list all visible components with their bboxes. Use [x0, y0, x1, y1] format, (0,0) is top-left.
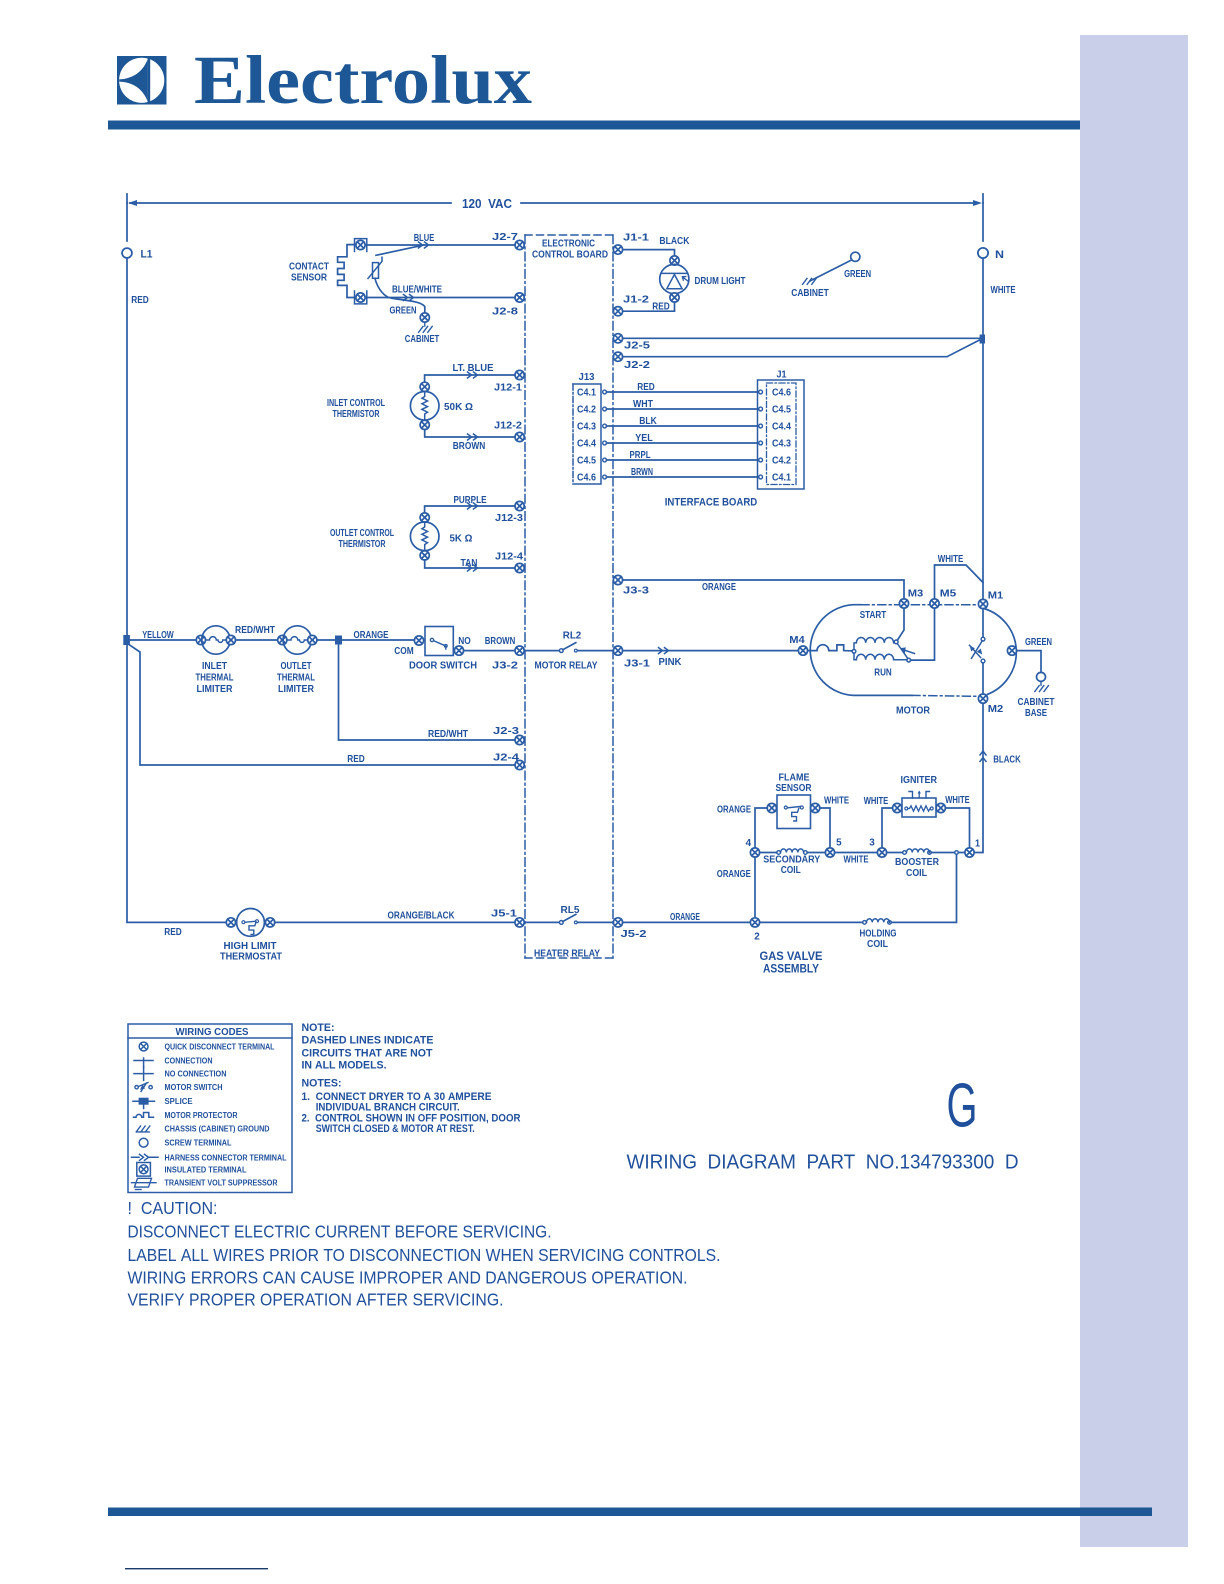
terminal J2-5: [613, 334, 622, 343]
svg-text:COIL: COIL: [867, 939, 888, 950]
svg-text:CONNECTION: CONNECTION: [165, 1057, 213, 1066]
svg-text:CHASSIS (CABINET) GROUND: CHASSIS (CABINET) GROUND: [165, 1125, 270, 1134]
svg-text:BLACK: BLACK: [659, 236, 690, 247]
svg-text:J5-1: J5-1: [491, 908, 518, 919]
svg-text:C4.1: C4.1: [772, 473, 791, 484]
contact sensor thermistor element: [368, 257, 382, 278]
ground cabinet (contact sensor): [419, 322, 433, 332]
svg-text:RL2: RL2: [563, 630, 582, 641]
svg-text:SPLICE: SPLICE: [165, 1097, 194, 1106]
wire YELLOW: [130, 639, 196, 641]
terminal J2-4: [515, 760, 524, 769]
wire ORANGE/BLACK: [275, 921, 515, 923]
footer rule: [108, 1508, 1152, 1517]
terminal J2-2: [613, 352, 622, 361]
svg-text:ORANGE: ORANGE: [702, 582, 736, 593]
svg-text:1: 1: [975, 838, 980, 849]
terminal contact sensor bottom: [356, 293, 365, 302]
svg-text:NOTES:: NOTES:: [302, 1078, 342, 1090]
svg-text:CABINET: CABINET: [791, 288, 829, 299]
svg-text:J2-7: J2-7: [492, 232, 519, 243]
svg-text:ORANGE: ORANGE: [670, 912, 700, 923]
wire M3 stem: [897, 608, 904, 640]
wire flame sensor left: [755, 808, 767, 848]
terminal motor GREEN: [1007, 646, 1016, 655]
terminal J12-2: [515, 432, 524, 441]
svg-text:START: START: [860, 610, 887, 621]
svg-text:WHITE: WHITE: [824, 795, 849, 806]
screw terminal cabinet base: [1037, 672, 1046, 681]
svg-text:PINK: PINK: [659, 657, 683, 668]
svg-text:TAN: TAN: [461, 558, 478, 569]
terminal J5-2: [613, 918, 622, 927]
svg-text:CONTROL BOARD: CONTROL BOARD: [532, 250, 608, 261]
svg-text:IGNITER: IGNITER: [901, 775, 938, 786]
terminal J12-4: [515, 563, 524, 572]
inlet thermal limiter: [202, 626, 230, 654]
legend symbol harness connector: [132, 1154, 159, 1160]
wire ORANGE J5-2: [623, 921, 751, 923]
terminal L1: [122, 248, 132, 258]
svg-text:HOLDING: HOLDING: [860, 928, 897, 939]
legend symbol no connection: [134, 1067, 153, 1081]
terminal flame sensor right: [811, 803, 820, 812]
svg-text:COIL: COIL: [906, 868, 927, 879]
wire GREEN cabinet base: [1017, 651, 1041, 673]
svg-text:CABINET: CABINET: [405, 334, 440, 345]
terminal J12-1: [515, 370, 524, 379]
svg-text:CIRCUITS THAT ARE NOT: CIRCUITS THAT ARE NOT: [302, 1048, 433, 1060]
svg-text:DASHED LINES INDICATE: DASHED LINES INDICATE: [302, 1035, 434, 1047]
svg-text:PRPL: PRPL: [630, 450, 651, 461]
wire RED/WHT limiters: [236, 639, 278, 641]
svg-text:SECONDARY: SECONDARY: [763, 854, 820, 865]
legend wiring codes box: [128, 1024, 292, 1193]
wire to splice 2: [317, 639, 335, 641]
svg-text:COIL: COIL: [781, 865, 801, 876]
terminal gas valve 5: [825, 848, 834, 857]
svg-text:SCREW TERMINAL: SCREW TERMINAL: [165, 1139, 232, 1148]
terminal gas valve 1: [965, 848, 974, 857]
terminal J1-2: [613, 307, 622, 316]
svg-text:INTERFACE BOARD: INTERFACE BOARD: [665, 496, 758, 508]
legend symbol motor switch: [135, 1083, 152, 1092]
svg-text:LABEL ALL WIRES PRIOR TO DISCO: LABEL ALL WIRES PRIOR TO DISCONNECTION W…: [128, 1245, 721, 1265]
svg-text:THERMOSTAT: THERMOSTAT: [220, 952, 282, 963]
svg-text:RED/WHT: RED/WHT: [235, 625, 275, 636]
wire J2-2: [623, 340, 980, 357]
terminal J3-3: [613, 575, 622, 584]
wire GREEN drop: [388, 298, 425, 313]
outlet thermal limiter: [283, 626, 311, 654]
svg-text:WIRING ERRORS CAN CAUSE IMPROP: WIRING ERRORS CAN CAUSE IMPROPER AND DAN…: [128, 1268, 688, 1288]
svg-text:C4.2: C4.2: [577, 405, 596, 416]
svg-text:GREEN: GREEN: [1025, 637, 1052, 648]
svg-text:50K Ω: 50K Ω: [444, 402, 473, 413]
svg-text:BROWN: BROWN: [485, 636, 516, 647]
pin C4.1 J13: [603, 390, 607, 394]
wire ORANGE 4 to 2: [754, 857, 756, 918]
svg-text:J2-3: J2-3: [493, 726, 520, 737]
motor switch start: [897, 644, 914, 659]
svg-text:ASSEMBLY: ASSEMBLY: [763, 964, 819, 976]
svg-text:COM: COM: [394, 646, 414, 657]
svg-text:J12-2: J12-2: [494, 420, 522, 431]
svg-text:DOOR SWITCH: DOOR SWITCH: [409, 660, 477, 671]
motor outline: [810, 605, 1016, 697]
svg-text:J2-8: J2-8: [492, 307, 519, 318]
svg-text:BRWN: BRWN: [631, 467, 653, 478]
svg-text:YEL: YEL: [635, 433, 653, 444]
svg-text:THERMAL: THERMAL: [196, 673, 234, 684]
svg-text:2: 2: [754, 932, 760, 943]
svg-text:L1: L1: [141, 249, 153, 261]
svg-text:FLAME: FLAME: [779, 772, 810, 783]
wire PINK: [623, 650, 799, 652]
wire igniter right: [945, 808, 969, 848]
terminal contact sensor top: [356, 240, 365, 249]
splice 2: [335, 636, 342, 645]
sidebar band: [1080, 35, 1188, 1547]
flame sensor: [777, 795, 811, 829]
svg-text:M2: M2: [988, 704, 1004, 715]
svg-text:! CAUTION:: ! CAUTION:: [128, 1198, 218, 1218]
pin C4.5 J13: [603, 458, 607, 462]
svg-text:RL5: RL5: [561, 905, 580, 916]
outlet control thermistor: [410, 522, 439, 551]
svg-text:GREEN: GREEN: [844, 269, 871, 280]
terminal GREEN ground: [420, 313, 429, 322]
screw terminal cabinet green: [851, 252, 860, 261]
svg-text:WHITE: WHITE: [844, 854, 869, 865]
svg-text:WHITE: WHITE: [864, 796, 889, 807]
wire N rail: [982, 203, 984, 599]
wire BRWN interface: [606, 476, 758, 478]
svg-text:120 VAC: 120 VAC: [462, 197, 512, 211]
svg-text:WHITE: WHITE: [945, 795, 970, 806]
svg-text:ORANGE: ORANGE: [717, 804, 751, 815]
wire ORANGE door switch: [342, 639, 414, 641]
terminal M3: [899, 599, 908, 608]
wire igniter left: [882, 808, 893, 848]
svg-text:HIGH LIMIT: HIGH LIMIT: [224, 941, 277, 952]
high limit thermostat: [237, 909, 265, 937]
legend symbol insulated terminal: [137, 1163, 151, 1177]
pin C4.3 J1: [759, 441, 763, 445]
wire BROWN door switch: [464, 650, 515, 652]
terminal J1-1: [613, 245, 622, 254]
wire RED high limit: [127, 921, 226, 923]
splice left rail: [123, 635, 130, 645]
header rule: [108, 121, 1080, 130]
terminal high limit left: [226, 918, 235, 927]
svg-text:MOTOR RELAY: MOTOR RELAY: [535, 660, 598, 671]
wire thermistor to BLUE: [376, 245, 424, 255]
svg-text:NOTE:: NOTE:: [302, 1022, 335, 1034]
terminal inlet thermistor bottom: [420, 420, 429, 429]
svg-text:WIRING CODES: WIRING CODES: [176, 1026, 249, 1038]
svg-text:OUTLET: OUTLET: [281, 661, 312, 672]
wire L1 rail: [126, 203, 128, 922]
svg-text:RED: RED: [347, 754, 365, 765]
svg-text:LT. BLUE: LT. BLUE: [453, 363, 494, 374]
svg-text:C4.5: C4.5: [577, 456, 596, 467]
pin C4.2 J13: [603, 407, 607, 411]
svg-text:J5-2: J5-2: [621, 929, 648, 940]
contact sensor body: [338, 245, 355, 298]
wire M2 stem: [982, 663, 984, 694]
svg-text:LIMITER: LIMITER: [278, 684, 315, 695]
relay RL5 heater relay: [524, 914, 613, 924]
svg-text:4: 4: [746, 838, 752, 849]
terminal drum light bottom: [670, 293, 679, 302]
svg-text:RED: RED: [637, 382, 655, 393]
terminal J3-1: [613, 646, 622, 655]
svg-text:J1-1: J1-1: [623, 233, 650, 244]
svg-text:J13: J13: [579, 372, 595, 383]
svg-text:INLET: INLET: [202, 661, 227, 672]
svg-text:SWITCH CLOSED & MOTOR AT REST.: SWITCH CLOSED & MOTOR AT REST.: [316, 1123, 475, 1135]
svg-text:IN ALL MODELS.: IN ALL MODELS.: [302, 1060, 387, 1072]
wire M1 stem: [982, 609, 984, 638]
terminal door switch COM: [414, 636, 423, 645]
wire RED J2-4: [128, 644, 515, 765]
svg-text:BASE: BASE: [1025, 708, 1047, 719]
svg-text:ORANGE/BLACK: ORANGE/BLACK: [388, 910, 456, 921]
wire LT. BLUE: [425, 375, 515, 382]
terminal J2-7: [515, 240, 524, 249]
svg-text:J12-3: J12-3: [495, 513, 523, 524]
run winding: [854, 653, 907, 660]
svg-text:MOTOR: MOTOR: [896, 705, 931, 716]
terminal gas valve 3: [877, 848, 886, 857]
node M2 contact: [981, 659, 985, 663]
svg-text:ORANGE: ORANGE: [354, 630, 389, 641]
svg-text:C4.2: C4.2: [772, 456, 791, 467]
holding coil: [760, 854, 957, 922]
svg-text:HARNESS CONNECTOR TERMINAL: HARNESS CONNECTOR TERMINAL: [165, 1153, 287, 1162]
terminal J3-2: [515, 646, 524, 655]
electronic control board outline: [525, 235, 613, 958]
terminal J2-3: [515, 735, 524, 744]
svg-text:HEATER RELAY: HEATER RELAY: [534, 949, 600, 960]
svg-text:J2-4: J2-4: [493, 753, 520, 764]
relay RL2 motor relay: [524, 643, 613, 653]
svg-text:G: G: [947, 1072, 978, 1141]
svg-text:SENSOR: SENSOR: [776, 783, 813, 794]
wire RED/WHT J2-3: [339, 645, 515, 741]
svg-text:J12-4: J12-4: [495, 551, 523, 562]
svg-text:RUN: RUN: [874, 668, 892, 679]
terminal outlet limiter right: [308, 635, 317, 644]
node booster junction: [955, 851, 959, 855]
wire green cabinet jumper: [810, 260, 852, 281]
svg-text:5K Ω: 5K Ω: [450, 533, 473, 544]
svg-text:N: N: [995, 249, 1004, 261]
svg-text:THERMISTOR: THERMISTOR: [333, 409, 381, 420]
svg-text:M3: M3: [908, 588, 924, 599]
svg-text:OUTLET CONTROL: OUTLET CONTROL: [330, 528, 394, 539]
pin C4.4 J1: [759, 424, 763, 428]
terminal flame sensor left: [767, 803, 776, 812]
svg-text:QUICK DISCONNECT TERMINAL: QUICK DISCONNECT TERMINAL: [165, 1043, 275, 1052]
svg-text:M4: M4: [789, 635, 805, 646]
node motor windings: [852, 649, 856, 653]
ground cabinet symbol: [803, 278, 817, 284]
wire WHITE M5: [935, 565, 984, 599]
svg-text:BLK: BLK: [639, 416, 657, 427]
svg-text:C4.3: C4.3: [577, 422, 596, 433]
terminal inlet thermistor top: [420, 382, 429, 391]
terminal igniter right: [936, 803, 945, 812]
terminal outlet thermistor top: [420, 513, 429, 522]
terminal outlet limiter left: [278, 635, 287, 644]
svg-text:M1: M1: [988, 590, 1004, 601]
svg-text:INSULATED TERMINAL: INSULATED TERMINAL: [165, 1165, 247, 1174]
secondary coil: [760, 852, 826, 854]
svg-text:WHITE: WHITE: [938, 554, 964, 565]
svg-text:WIRING DIAGRAM PART NO.1347: WIRING DIAGRAM PART NO.134793300 D: [627, 1152, 1019, 1174]
svg-text:INLET CONTROL: INLET CONTROL: [327, 398, 385, 409]
svg-text:C4.3: C4.3: [772, 439, 791, 450]
svg-text:WHITE: WHITE: [991, 285, 1016, 296]
node M1 contact: [981, 637, 985, 641]
contact sensor terminal brackets: [355, 239, 367, 304]
terminal igniter left: [893, 803, 902, 812]
svg-text:GAS VALVE: GAS VALVE: [760, 951, 823, 963]
svg-text:ORANGE: ORANGE: [717, 869, 751, 880]
terminal inlet limiter left: [196, 635, 205, 644]
ground cabinet base: [1035, 681, 1049, 691]
svg-text:BLACK: BLACK: [993, 754, 1021, 765]
wire BROWN inlet: [425, 430, 515, 438]
wire YEL interface: [606, 442, 758, 444]
svg-text:BOOSTER: BOOSTER: [895, 857, 940, 868]
wire RED interface: [606, 391, 758, 393]
legend symbol screw terminal: [139, 1138, 148, 1147]
legend symbol quick disconnect: [139, 1042, 148, 1051]
pin C4.1 J1: [759, 475, 763, 479]
terminal N: [978, 248, 988, 258]
terminal drum light top: [670, 256, 679, 265]
svg-text:DRUM LIGHT: DRUM LIGHT: [695, 276, 746, 287]
booster coil: [887, 852, 965, 854]
Electrolux logo icon: [117, 56, 167, 105]
wire TAN: [425, 560, 515, 568]
svg-text:J3-3: J3-3: [623, 585, 650, 596]
120 VAC supply rail: [127, 194, 983, 206]
legend symbol transient volt suppressor: [132, 1178, 157, 1189]
svg-text:WHT: WHT: [633, 399, 653, 410]
terminal gas valve 4: [750, 848, 759, 857]
wire RED drum light: [623, 302, 675, 311]
pin C4.5 J1: [759, 407, 763, 411]
svg-text:C4.4: C4.4: [577, 439, 596, 450]
wire BLUE/WHITE: [366, 297, 515, 299]
svg-text:M5: M5: [940, 588, 957, 599]
terminal J5-1: [515, 918, 524, 927]
wire ORANGE J3-3: [623, 580, 904, 598]
svg-text:J2-2: J2-2: [624, 360, 651, 371]
inlet control thermistor: [410, 392, 439, 421]
connector J1 interface box: [758, 380, 805, 489]
svg-text:BROWN: BROWN: [453, 441, 486, 452]
wire thermistor to BLUE/WHITE: [375, 278, 388, 297]
svg-text:RED: RED: [652, 302, 670, 313]
node run end: [907, 658, 911, 662]
svg-text:J12-1: J12-1: [494, 383, 522, 394]
wire PRPL interface: [606, 459, 758, 461]
svg-text:THERMAL: THERMAL: [277, 673, 315, 684]
svg-text:MOTOR PROTECTOR: MOTOR PROTECTOR: [165, 1111, 238, 1120]
svg-text:RED: RED: [164, 927, 182, 938]
legend symbol splice: [133, 1098, 155, 1109]
svg-text:SENSOR: SENSOR: [291, 273, 328, 284]
pin C4.4 J13: [603, 441, 607, 445]
svg-text:NO CONNECTION: NO CONNECTION: [165, 1070, 227, 1079]
pin C4.6 J13: [603, 475, 607, 479]
pin C4.3 J13: [603, 424, 607, 428]
svg-text:GREEN: GREEN: [390, 306, 417, 317]
svg-text:Electrolux: Electrolux: [194, 42, 533, 118]
svg-text:DISCONNECT ELECTRIC CURRENT BE: DISCONNECT ELECTRIC CURRENT BEFORE SERVI…: [128, 1222, 552, 1242]
wire WHT interface: [606, 408, 758, 410]
svg-text:J1: J1: [777, 369, 787, 380]
terminal M4: [798, 646, 807, 655]
terminal M1: [978, 599, 987, 608]
terminal door switch NO: [454, 646, 463, 655]
svg-text:C4.6: C4.6: [772, 388, 791, 399]
svg-text:C4.5: C4.5: [772, 405, 791, 416]
svg-text:ELECTRONIC: ELECTRONIC: [542, 239, 595, 250]
junction J2-5/N: [980, 335, 985, 344]
wire PURPLE: [425, 506, 515, 517]
wire 5 to 3: [835, 852, 878, 854]
drum light lamp: [660, 264, 689, 293]
terminal J2-8: [515, 293, 524, 302]
svg-text:BLUE: BLUE: [414, 233, 435, 244]
wire J2-5: [623, 337, 980, 339]
svg-text:C4.1: C4.1: [577, 388, 596, 399]
legend symbol motor protector: [134, 1113, 154, 1118]
wire flame sensor right: [820, 808, 830, 848]
svg-text:VERIFY PROPER OPERATION AFTER: VERIFY PROPER OPERATION AFTER SERVICING.: [128, 1290, 504, 1310]
svg-text:J3-2: J3-2: [492, 660, 519, 671]
pin C4.2 J1: [759, 458, 763, 462]
svg-text:YELLOW: YELLOW: [142, 630, 174, 641]
wire run to M5 stem: [911, 608, 935, 660]
legend symbol chassis ground: [136, 1126, 150, 1132]
svg-text:TRANSIENT VOLT SUPPRESSOR: TRANSIENT VOLT SUPPRESSOR: [165, 1179, 278, 1188]
svg-text:CABINET: CABINET: [1018, 697, 1055, 708]
terminal J12-3: [515, 501, 524, 510]
svg-text:5: 5: [836, 838, 842, 849]
svg-text:BLUE/WHITE: BLUE/WHITE: [392, 285, 442, 296]
door switch: [425, 627, 453, 656]
wire BLACK M2: [974, 703, 983, 852]
terminal outlet thermistor bottom: [420, 551, 429, 560]
terminal M2: [978, 694, 987, 703]
svg-text:C4.4: C4.4: [772, 422, 791, 433]
footer tick line: [125, 1568, 268, 1569]
terminal gas valve 2: [750, 918, 759, 927]
connector J13 box: [573, 384, 601, 484]
pin C4.6 J1: [759, 390, 763, 394]
svg-text:MOTOR SWITCH: MOTOR SWITCH: [165, 1083, 223, 1092]
legend symbol connection: [134, 1058, 153, 1068]
terminal high limit right: [266, 918, 275, 927]
svg-text:RED/WHT: RED/WHT: [428, 729, 468, 740]
